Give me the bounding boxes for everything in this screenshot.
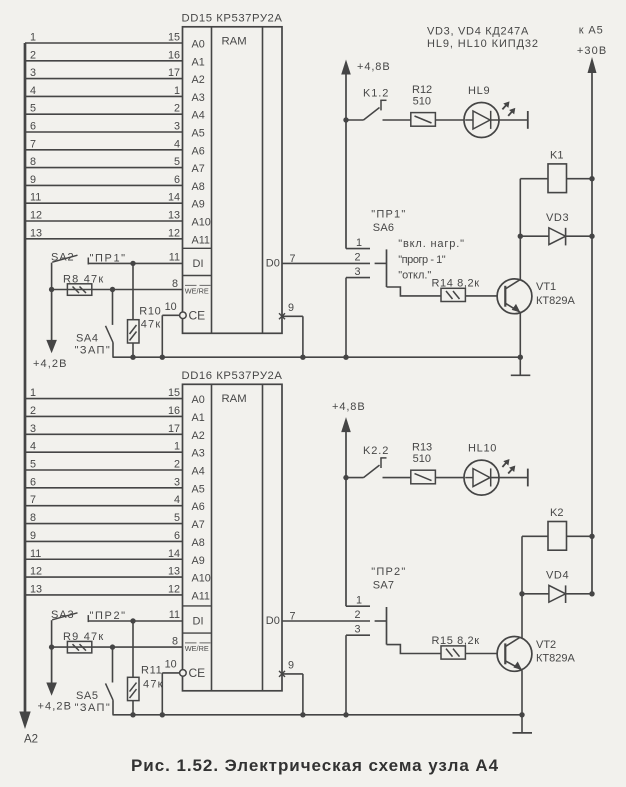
wire address line 9 to pin 6 (A8) <box>25 174 183 186</box>
resistor R15 8,2к <box>432 635 506 659</box>
svg-text:9: 9 <box>30 174 36 186</box>
svg-text:3: 3 <box>30 423 36 435</box>
wire address line 11 to pin 14 (A9) <box>25 192 183 204</box>
junction WE wire / SA4 branch <box>110 287 115 292</box>
svg-text:D0: D0 <box>266 258 280 270</box>
contact 1 stub (to +4,8В) <box>346 595 370 607</box>
switch SA2 "ПР1" <box>51 251 127 289</box>
svg-text:A2: A2 <box>192 430 205 442</box>
svg-text:A9: A9 <box>192 555 205 567</box>
svg-text:"прогр - 1": "прогр - 1" <box>398 254 446 266</box>
svg-text:+4,2В: +4,2В <box>33 358 68 370</box>
svg-text:R10: R10 <box>139 305 161 317</box>
svg-text:A6: A6 <box>192 145 205 157</box>
svg-text:9: 9 <box>288 302 294 314</box>
svg-text:9: 9 <box>30 530 36 542</box>
svg-text:"ЗАП": "ЗАП" <box>75 702 112 714</box>
svg-text:DI: DI <box>193 616 204 628</box>
wire address line 5 to pin 2 (A4) <box>25 103 183 115</box>
svg-text:16: 16 <box>168 49 180 61</box>
node A2 address bus vertical <box>19 43 38 746</box>
ground <box>511 357 531 375</box>
svg-text:VD3: VD3 <box>546 212 569 224</box>
svg-text:7: 7 <box>290 253 296 265</box>
svg-text:"ПР2": "ПР2" <box>371 566 406 578</box>
svg-text:SA3: SA3 <box>51 609 75 621</box>
junction WE wire left <box>49 644 54 649</box>
svg-text:A7: A7 <box>192 519 205 531</box>
wire address line 5 to pin 2 (A4) <box>25 459 183 471</box>
wire address line 13 to pin 12 (A11) <box>25 227 183 239</box>
svg-text:12: 12 <box>168 583 180 595</box>
svg-text:"вкл. нагр.": "вкл. нагр." <box>398 238 465 250</box>
svg-text:R12: R12 <box>412 84 432 96</box>
svg-text:1: 1 <box>30 387 36 399</box>
junction +4,8В / relay contact <box>343 117 348 122</box>
svg-text:13: 13 <box>30 227 42 239</box>
svg-text:1: 1 <box>356 237 362 249</box>
svg-text:A8: A8 <box>192 537 205 549</box>
svg-text:RAM: RAM <box>222 35 247 47</box>
svg-text:2: 2 <box>174 103 180 115</box>
svg-text:3: 3 <box>174 121 180 133</box>
svg-text:A5: A5 <box>192 128 205 140</box>
svg-text:5: 5 <box>30 459 36 471</box>
svg-text:4: 4 <box>174 494 180 506</box>
power +30В rail to А5 <box>577 24 607 594</box>
wire emitter <box>519 313 521 358</box>
svg-text:к А5: к А5 <box>579 24 604 36</box>
svg-text:DI: DI <box>193 258 204 270</box>
wire address line 12 to pin 13 (A10) <box>25 566 183 578</box>
svg-text:A2: A2 <box>192 74 205 86</box>
junction pin9 drop <box>300 712 305 717</box>
wire D0 pin 7 to selector <box>282 611 370 623</box>
svg-text:"ЗАП": "ЗАП" <box>75 344 112 356</box>
resistor R13 510 <box>411 441 465 483</box>
svg-text:47к: 47к <box>143 679 164 691</box>
svg-text:6: 6 <box>30 121 36 133</box>
svg-text:VD4: VD4 <box>546 570 569 582</box>
svg-text:A10: A10 <box>192 573 211 585</box>
svg-text:SA7: SA7 <box>373 580 394 592</box>
svg-text:SA5: SA5 <box>76 690 99 702</box>
svg-text:R13: R13 <box>412 441 432 453</box>
wire D0 pin 7 to selector <box>282 253 370 265</box>
part list note <box>427 25 539 50</box>
svg-text:7: 7 <box>30 138 36 150</box>
wire collector <box>521 536 523 638</box>
ground <box>513 715 533 733</box>
junction WE wire / SA4 branch <box>110 644 115 649</box>
svg-text:CE: CE <box>189 309 206 323</box>
svg-text:2: 2 <box>174 459 180 471</box>
wire address line 4 to pin 1 (A3) <box>25 85 183 97</box>
contact 1 stub (to +4,8В) <box>346 237 370 249</box>
wire address line 12 to pin 13 (A10) <box>25 210 183 222</box>
svg-text:10: 10 <box>165 659 177 671</box>
svg-text:1: 1 <box>174 441 180 453</box>
junction SA switch stub3 drop <box>343 355 348 360</box>
svg-text:4: 4 <box>174 138 180 150</box>
resistor R11 47к <box>128 621 164 715</box>
RAM chip DD15 КР537РУ2А <box>182 12 283 333</box>
svg-text:11: 11 <box>30 548 41 560</box>
wire pin 9 (output select) <box>279 660 303 715</box>
junction diode / +30В rail <box>589 591 594 596</box>
svg-text:15: 15 <box>168 32 180 44</box>
wire CE pin 10 <box>162 659 179 715</box>
wire address line 8 to pin 5 (A7) <box>25 512 183 524</box>
svg-text:13: 13 <box>168 210 180 222</box>
svg-text:+4,8В: +4,8В <box>357 61 391 73</box>
switch SA5 "ЗАП" <box>75 647 113 715</box>
svg-text:8: 8 <box>30 512 36 524</box>
wire DI pin 11 <box>88 251 182 263</box>
svg-text:A0: A0 <box>192 39 205 51</box>
resistor R9 47к <box>63 631 104 653</box>
wire address line 7 to pin 4 (A6) <box>25 138 183 150</box>
junction relay / +30В rail <box>589 534 594 539</box>
svg-text:17: 17 <box>168 67 180 79</box>
svg-text:А2: А2 <box>24 734 38 746</box>
svg-text:1: 1 <box>30 32 36 44</box>
svg-text:11: 11 <box>169 251 180 263</box>
svg-text:A11: A11 <box>192 590 210 602</box>
svg-text:3: 3 <box>30 67 36 79</box>
wire address line 2 to pin 16 (A1) <box>25 405 183 417</box>
CE inversion bubble pin 10 (DD15) <box>180 312 187 319</box>
switch SA7 "ПР2" selector <box>371 566 406 592</box>
svg-text:3: 3 <box>174 476 180 488</box>
svg-text:A1: A1 <box>192 412 205 424</box>
diode VD3 КД247А <box>520 212 592 245</box>
resistor R14 8,2к <box>432 277 506 301</box>
svg-text:A10: A10 <box>192 217 211 229</box>
svg-text:D0: D0 <box>266 615 280 627</box>
relay coil K1 <box>520 149 592 192</box>
svg-text:17: 17 <box>168 423 180 435</box>
svg-text:9: 9 <box>288 660 294 672</box>
relay contact K2.2 <box>346 445 411 478</box>
wire address line 4 to pin 1 (A3) <box>25 441 183 453</box>
svg-text:"ПР1": "ПР1" <box>90 252 127 264</box>
svg-text:A3: A3 <box>192 92 205 104</box>
svg-text:"ПР2": "ПР2" <box>90 610 127 622</box>
svg-text:7: 7 <box>290 611 296 623</box>
svg-text:A6: A6 <box>192 501 205 513</box>
wire emitter <box>521 670 523 715</box>
switch SA6 "ПР1" selector <box>371 208 406 234</box>
svg-text:12: 12 <box>168 227 180 239</box>
svg-text:RAM: RAM <box>222 393 247 405</box>
svg-text:VT1: VT1 <box>536 281 556 293</box>
svg-text:R15 8,2к: R15 8,2к <box>432 635 480 647</box>
svg-text:A5: A5 <box>192 483 205 495</box>
svg-text:A1: A1 <box>192 56 205 68</box>
wire address line 9 to pin 6 (A8) <box>25 530 183 542</box>
selector wiper arm <box>375 607 441 654</box>
svg-text:10: 10 <box>165 301 177 313</box>
svg-text:+4,2В: +4,2В <box>38 701 73 713</box>
resistor R8 47к <box>63 273 104 295</box>
svg-text:A3: A3 <box>192 448 205 460</box>
svg-text:K2.2: K2.2 <box>363 445 389 457</box>
selector wiper arm <box>375 249 441 296</box>
svg-text:1: 1 <box>356 595 362 607</box>
svg-text:A11: A11 <box>192 234 210 246</box>
svg-text:510: 510 <box>413 453 431 465</box>
wire address line 6 to pin 3 (A5) <box>25 476 183 488</box>
svg-text:"откл.": "откл." <box>398 270 431 282</box>
svg-text:3: 3 <box>355 624 361 636</box>
junction emitter / rail <box>518 355 523 360</box>
junction +4,8В / relay contact <box>343 475 348 480</box>
svg-text:R11: R11 <box>141 665 162 677</box>
svg-text:WE/RE: WE/RE <box>185 644 209 653</box>
wire address line 13 to pin 12 (A11) <box>25 583 183 595</box>
wire WE/RE pin 8 <box>52 636 183 648</box>
svg-text:2: 2 <box>355 609 361 621</box>
wire address line 8 to pin 5 (A7) <box>25 156 183 168</box>
svg-text:2: 2 <box>30 405 36 417</box>
svg-text:DD15 КР537РУ2А: DD15 КР537РУ2А <box>182 12 283 24</box>
svg-text:13: 13 <box>168 566 180 578</box>
svg-text:K1: K1 <box>550 149 563 161</box>
svg-text:11: 11 <box>30 192 41 204</box>
svg-text:5: 5 <box>30 103 36 115</box>
wire common rail (bottom of half) <box>113 356 521 358</box>
svg-text:A8: A8 <box>192 181 205 193</box>
junction diode / +30В rail <box>589 234 594 239</box>
LED HL9 КИПД32 <box>464 85 528 138</box>
svg-text:47к: 47к <box>141 318 162 330</box>
wire WE/RE pin 8 <box>52 278 183 290</box>
svg-text:VT2: VT2 <box>536 639 556 651</box>
wire DI pin 11 <box>88 609 182 621</box>
wire address line 1 to pin 15 (A0) <box>25 32 183 44</box>
resistor R10 47к <box>128 263 162 357</box>
power +4,8В arrow <box>332 401 366 606</box>
switch SA3 "ПР2" <box>51 609 127 647</box>
svg-text:13: 13 <box>30 583 42 595</box>
relay coil K2 <box>522 507 592 550</box>
svg-text:14: 14 <box>168 192 180 204</box>
svg-text:11: 11 <box>169 609 180 621</box>
wire address line 11 to pin 14 (A9) <box>25 548 183 560</box>
svg-text:HL10: HL10 <box>468 442 497 454</box>
svg-text:K2: K2 <box>550 507 563 519</box>
junction R47k bottom <box>130 355 135 360</box>
resistor R12 510 <box>411 84 465 126</box>
svg-text:6: 6 <box>30 476 36 488</box>
svg-text:SA2: SA2 <box>51 251 75 263</box>
power +4,2В arrow <box>38 647 73 712</box>
contact 3 stub (to rail) <box>346 266 370 357</box>
svg-text:5: 5 <box>174 512 180 524</box>
svg-text:Рис. 1.52. Электрическая схема: Рис. 1.52. Электрическая схема узла А4 <box>131 756 499 775</box>
contact 3 stub (to rail) <box>346 624 370 715</box>
junction diode / collector line <box>519 591 524 596</box>
junction DI / pull-down <box>130 261 135 266</box>
svg-text:8: 8 <box>172 278 178 290</box>
RAM chip DD16 КР537РУ2А <box>182 370 283 691</box>
svg-text:+30В: +30В <box>577 45 607 57</box>
svg-text:8: 8 <box>30 156 36 168</box>
svg-text:A0: A0 <box>192 394 205 406</box>
svg-text:2: 2 <box>355 252 361 264</box>
svg-text:"ПР1": "ПР1" <box>371 208 406 220</box>
svg-text:16: 16 <box>168 405 180 417</box>
wire address line 1 to pin 15 (A0) <box>25 387 183 399</box>
svg-text:14: 14 <box>168 548 180 560</box>
wire address line 6 to pin 3 (A5) <box>25 121 183 133</box>
svg-text:CE: CE <box>189 666 206 680</box>
svg-text:3: 3 <box>355 266 361 278</box>
svg-text:4: 4 <box>30 85 36 97</box>
wire common rail (bottom of half) <box>113 714 523 716</box>
junction SA switch stub3 drop <box>343 712 348 717</box>
wire address line 2 to pin 16 (A1) <box>25 49 183 61</box>
svg-text:510: 510 <box>413 95 431 107</box>
wire CE pin 10 <box>162 301 179 357</box>
svg-text:A7: A7 <box>192 163 205 175</box>
switch SA4 "ЗАП" <box>75 290 113 358</box>
position labels <box>398 238 465 282</box>
svg-text:R9 47к: R9 47к <box>63 631 104 643</box>
svg-text:HL9: HL9 <box>468 85 490 97</box>
svg-text:12: 12 <box>30 566 42 578</box>
power +4,2В arrow <box>33 290 68 370</box>
svg-text:15: 15 <box>168 387 180 399</box>
junction WE wire left <box>49 287 54 292</box>
svg-text:A4: A4 <box>192 110 205 122</box>
junction DI / pull-down <box>130 618 135 623</box>
svg-text:SA6: SA6 <box>373 222 394 234</box>
power +4,8В arrow <box>341 60 390 249</box>
svg-text:R14 8,2к: R14 8,2к <box>432 277 480 289</box>
svg-text:WE/RE: WE/RE <box>185 286 209 295</box>
svg-text:8: 8 <box>172 636 178 648</box>
junction diode / collector line <box>518 234 523 239</box>
svg-text:SA4: SA4 <box>76 332 99 344</box>
junction emitter / rail <box>519 712 524 717</box>
junction CE drop <box>160 355 165 360</box>
junction pin9 drop <box>300 355 305 360</box>
junction R47k bottom <box>130 712 135 717</box>
svg-text:12: 12 <box>30 210 42 222</box>
svg-text:КТ829А: КТ829А <box>536 295 575 307</box>
relay contact K1.2 <box>346 87 411 120</box>
svg-text:1: 1 <box>174 85 180 97</box>
svg-text:4: 4 <box>30 441 36 453</box>
svg-text:A9: A9 <box>192 199 205 211</box>
svg-text:5: 5 <box>174 156 180 168</box>
svg-text:+4,8В: +4,8В <box>332 401 366 413</box>
wire address line 3 to pin 17 (A2) <box>25 67 183 79</box>
svg-text:6: 6 <box>174 530 180 542</box>
svg-text:КТ829А: КТ829А <box>536 652 575 664</box>
transistor VT1 КТ829А <box>497 279 575 314</box>
svg-text:2: 2 <box>30 49 36 61</box>
wire address line 7 to pin 4 (A6) <box>25 494 183 506</box>
LED HL10 КИПД32 <box>464 442 528 495</box>
svg-text:K1.2: K1.2 <box>363 87 389 99</box>
svg-text:VD3, VD4 КД247А: VD3, VD4 КД247А <box>427 25 529 37</box>
diode VD4 КД247А <box>522 570 592 603</box>
transistor VT2 КТ829А <box>497 637 575 672</box>
svg-text:7: 7 <box>30 494 36 506</box>
svg-text:A4: A4 <box>192 466 205 478</box>
svg-text:HL9, HL10 КИПД32: HL9, HL10 КИПД32 <box>427 38 539 50</box>
svg-text:R8 47к: R8 47к <box>63 273 104 285</box>
wire pin 9 (output select) <box>279 302 303 357</box>
wire address line 3 to pin 17 (A2) <box>25 423 183 435</box>
junction relay / +30В rail <box>589 176 594 181</box>
CE inversion bubble pin 10 (DD16) <box>180 670 187 677</box>
svg-text:6: 6 <box>174 174 180 186</box>
wire collector <box>519 179 521 281</box>
svg-text:DD16 КР537РУ2А: DD16 КР537РУ2А <box>182 370 283 382</box>
junction CE drop <box>160 712 165 717</box>
